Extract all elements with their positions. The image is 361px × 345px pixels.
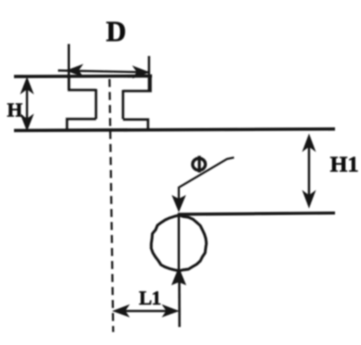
svg-text:D: D: [106, 17, 126, 48]
svg-text:H1: H1: [330, 152, 359, 177]
svg-text:H: H: [7, 100, 23, 122]
svg-text:L1: L1: [139, 289, 161, 310]
